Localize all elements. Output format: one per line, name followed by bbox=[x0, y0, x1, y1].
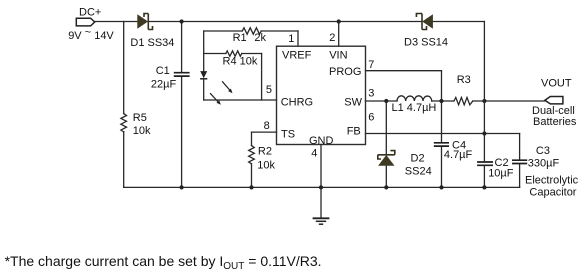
LED charge indicator diode bbox=[200, 71, 207, 79]
svg-text:6: 6 bbox=[368, 112, 374, 124]
ground symbol bbox=[313, 218, 330, 224]
wire CHRG row bbox=[204, 99, 277, 101]
svg-text:*The charge current can be set: *The charge current can be set by IOUT =… bbox=[5, 253, 322, 272]
svg-text:2k: 2k bbox=[254, 32, 266, 44]
wire FB row pin 6 bbox=[366, 133, 520, 135]
svg-text:R1: R1 bbox=[233, 32, 247, 44]
connector J1 DC+ input tag bbox=[76, 18, 94, 26]
wire LED left vertical lower bbox=[203, 79, 205, 100]
node junction dot top rail at C1 bbox=[180, 19, 184, 23]
svg-text:5: 5 bbox=[266, 84, 272, 96]
svg-text:10µF: 10µF bbox=[488, 168, 514, 180]
wire pin 1 vertical bbox=[297, 31, 299, 46]
node junction dot bottom rail at C4 bbox=[439, 185, 443, 189]
svg-text:C3: C3 bbox=[536, 145, 550, 157]
svg-text:1: 1 bbox=[288, 33, 294, 45]
wire L1 to R3 bbox=[432, 100, 454, 102]
svg-text:D2: D2 bbox=[411, 152, 425, 164]
wire PROG to SW node vertical with C4 branch bbox=[441, 71, 443, 188]
capacitor C3 electrolytic bbox=[512, 160, 527, 163]
svg-text:VREF: VREF bbox=[282, 49, 312, 61]
svg-text:TS: TS bbox=[281, 129, 295, 141]
capacitor C4 bbox=[434, 143, 449, 146]
svg-text:FB: FB bbox=[347, 126, 361, 138]
connector VOUT output tag bbox=[545, 97, 563, 104]
svg-text:R4 10k: R4 10k bbox=[223, 55, 258, 67]
resistor R4 bbox=[226, 51, 242, 56]
svg-text:2: 2 bbox=[329, 32, 335, 44]
node junction dot bottom rail at D2 bbox=[384, 185, 388, 189]
wire R5 branch vertical bbox=[123, 22, 125, 188]
wire top rail from DC+ tag to D1 anode bbox=[95, 21, 138, 23]
node junction dot SW at D2 bbox=[384, 99, 388, 103]
wire PROG row pin 7 bbox=[366, 70, 442, 72]
node junction dot VOUT line at right vertical bbox=[482, 99, 486, 103]
svg-text:DC+: DC+ bbox=[79, 6, 101, 18]
wire LED left vertical upper bbox=[203, 31, 205, 71]
svg-text:22µF: 22µF bbox=[151, 79, 177, 91]
wire R1 row leads bbox=[204, 30, 298, 32]
capacitor C1 bbox=[174, 73, 190, 76]
svg-text:4: 4 bbox=[311, 147, 317, 159]
diode D2 SS24 schottky bbox=[378, 151, 395, 166]
diode D1 SS34 schottky bbox=[137, 14, 152, 30]
resistor R2 bbox=[249, 146, 255, 164]
wire C1 branch vertical bbox=[181, 22, 183, 188]
svg-text:D1 SS34: D1 SS34 bbox=[130, 37, 174, 49]
inductor L1 bbox=[397, 96, 432, 101]
op-amp U1 charger IC box bbox=[277, 46, 366, 144]
wire D2 branch vertical bbox=[385, 101, 387, 187]
svg-text:4.7µF: 4.7µF bbox=[444, 149, 473, 161]
wire pin 2 vertical bbox=[338, 22, 340, 47]
svg-text:L1 4.7µH: L1 4.7µH bbox=[392, 102, 437, 114]
LED emission arrow 1 bbox=[222, 81, 232, 93]
svg-text:Electrolytic: Electrolytic bbox=[525, 174, 579, 186]
svg-text:VOUT: VOUT bbox=[541, 77, 572, 89]
wire R4 row leads bbox=[204, 53, 262, 55]
wire R2 branch vertical bbox=[251, 132, 253, 187]
wire GND pin 4 vertical bbox=[320, 145, 322, 188]
wire bottom ground rail bbox=[124, 186, 520, 188]
svg-text:R2: R2 bbox=[258, 145, 272, 157]
wire TS row pin 8 bbox=[252, 131, 277, 133]
diode D3 SS14 schottky bbox=[416, 14, 433, 30]
svg-text:330µF: 330µF bbox=[528, 158, 560, 170]
wire SW row pin 3 bbox=[366, 100, 398, 102]
ground symbol stub bbox=[320, 187, 322, 217]
svg-text:CHRG: CHRG bbox=[281, 97, 313, 109]
wire R4 right vertical bbox=[261, 54, 263, 101]
svg-text:10k: 10k bbox=[133, 125, 151, 137]
svg-text:PROG: PROG bbox=[329, 66, 361, 78]
svg-text:R5: R5 bbox=[133, 112, 147, 124]
svg-text:VIN: VIN bbox=[329, 49, 347, 61]
svg-text:Capacitor: Capacitor bbox=[529, 186, 576, 198]
resistor R1 bbox=[242, 28, 261, 34]
svg-text:8: 8 bbox=[264, 120, 270, 132]
resistor R3 bbox=[454, 97, 473, 104]
node junction dot bottom rail at R2 bbox=[249, 185, 253, 189]
svg-text:SS24: SS24 bbox=[405, 165, 432, 177]
svg-text:D3 SS14: D3 SS14 bbox=[404, 37, 448, 49]
wire top rail from D3 anode to right corner bbox=[433, 21, 485, 23]
svg-text:10k: 10k bbox=[257, 160, 275, 172]
node junction dot bottom rail at GND pin bbox=[319, 185, 323, 189]
node junction dot SW-L1-PROG bbox=[439, 99, 443, 103]
svg-text:C1: C1 bbox=[156, 65, 170, 77]
svg-text:7: 7 bbox=[368, 59, 374, 71]
capacitor C2 bbox=[477, 162, 493, 165]
svg-text:3: 3 bbox=[368, 87, 374, 99]
svg-text:Batteries: Batteries bbox=[533, 116, 577, 128]
LED emission arrow 2 bbox=[210, 93, 221, 105]
resistor R5 bbox=[121, 114, 127, 132]
wire right vertical D3 to bottom rail with C2 bbox=[483, 22, 485, 188]
svg-text:SW: SW bbox=[344, 97, 362, 109]
wire C3 branch vertical bbox=[519, 134, 521, 188]
wire R3 to VOUT tag bbox=[473, 100, 545, 102]
node junction dot FB at right vertical bbox=[482, 131, 486, 135]
node junction dot top rail at pin 2 bbox=[337, 19, 341, 23]
node junction dot bottom rail at C2 bbox=[482, 185, 486, 189]
node junction dot bottom rail at C1 bbox=[180, 185, 184, 189]
svg-text:R3: R3 bbox=[457, 74, 471, 86]
wire top rail from D1 cathode to D3 cathode bbox=[149, 21, 422, 23]
